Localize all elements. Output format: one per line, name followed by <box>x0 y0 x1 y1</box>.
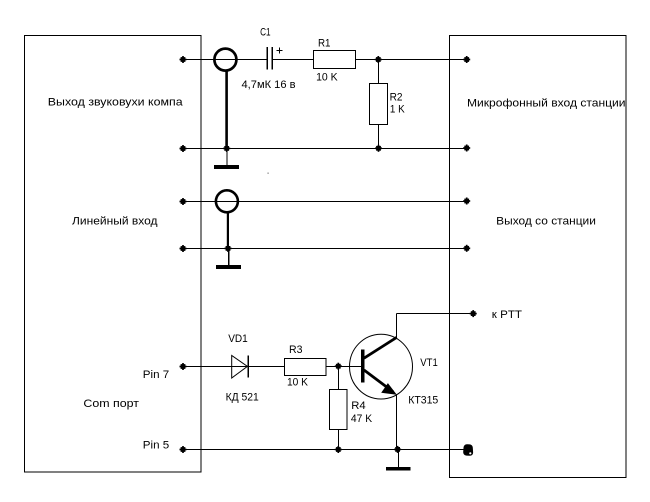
svg-text:Выход звуковухи компа: Выход звуковухи компа <box>48 96 184 108</box>
transistor VT1 emitter diagonal with arrow <box>364 370 393 392</box>
svg-text:R1: R1 <box>318 38 331 50</box>
node: right pin dot mic - <box>463 145 470 152</box>
transistor VT1 base bar <box>361 350 365 383</box>
diode VD1 cathode bar <box>247 355 249 377</box>
node: R4 bottom junction <box>335 446 342 453</box>
wire: ground rail 2 <box>183 248 467 250</box>
ground symbol 1 bar <box>214 165 239 169</box>
wire: J1 sleeve drop (thick) <box>225 71 228 149</box>
wire: R2 stem top <box>378 60 380 84</box>
svg-text:Pin 7: Pin 7 <box>143 369 169 381</box>
node: base junction <box>335 363 342 370</box>
svg-text:VT1: VT1 <box>420 357 438 369</box>
speck artifact <box>267 173 268 174</box>
wire: R4 stem bottom <box>338 430 340 450</box>
svg-text:КТ315: КТ315 <box>408 395 438 407</box>
resistor R3 <box>285 359 327 376</box>
node: emitter ground junction <box>394 446 401 453</box>
wire: Pin 5 ground rail <box>183 449 466 451</box>
svg-text:10 K: 10 K <box>287 377 309 389</box>
wire: collector to PTT <box>397 313 474 315</box>
left box (computer) <box>25 36 202 473</box>
transistor VT1 collector diagonal <box>364 337 397 358</box>
svg-text:R3: R3 <box>289 344 303 356</box>
node: right pin dot out - <box>463 245 470 252</box>
transistor VT1 body circle <box>350 334 413 399</box>
svg-text:R2: R2 <box>390 92 403 104</box>
capacitor C1 polarity plus <box>277 48 283 54</box>
node: left pin dot rail3 <box>180 198 187 205</box>
wire: ground rail 1 <box>183 148 467 150</box>
svg-text:1 K: 1 K <box>390 104 405 116</box>
node: right pin dot mic + <box>463 56 470 63</box>
svg-text:R4: R4 <box>351 400 365 412</box>
capacitor C1 right plate <box>271 47 273 69</box>
svg-text:КД 521: КД 521 <box>226 392 259 404</box>
resistor R2 <box>370 84 388 125</box>
svg-text:4,7мК 16 в: 4,7мК 16 в <box>242 79 296 91</box>
ground symbol 2 bar <box>216 265 241 269</box>
ground symbol 3 stem <box>398 450 400 468</box>
node: PTT pin dot <box>470 310 477 317</box>
node: ground 2 junction <box>225 245 232 252</box>
svg-text:C1: C1 <box>260 26 271 38</box>
wire: J2 sleeve drop (thick) <box>227 212 229 249</box>
wire: R4 stem top <box>338 367 340 390</box>
wire: R2 stem bottom <box>378 125 380 149</box>
ground symbol 1 stem <box>226 149 228 166</box>
resistor R1 <box>314 51 356 69</box>
ground symbol 3 bar <box>386 467 411 471</box>
node: left pin dot Pin7 <box>180 363 187 370</box>
wire: Pin 7 to base <box>183 366 361 368</box>
node: R1-R2 junction <box>375 56 382 63</box>
node: right pin dot out + <box>463 198 470 205</box>
wire: sound-card output to mic input (top rail) <box>183 59 267 61</box>
capacitor C1 left plate <box>266 47 268 69</box>
resistor R4 <box>330 390 348 430</box>
diode VD1 triangle <box>232 356 248 379</box>
node: left pin dot Pin5 <box>180 446 187 453</box>
wire: line input rail <box>183 201 467 203</box>
svg-text:Pin 5: Pin 5 <box>143 440 169 452</box>
right box (radio station) <box>450 36 627 478</box>
svg-text:Линейный вход: Линейный вход <box>72 215 158 227</box>
node: ground 1 junction <box>223 145 230 152</box>
node: left pin dot rail2 <box>180 145 187 152</box>
node: Pin5 blob terminal in right box <box>463 444 473 455</box>
node: left pin dot rail1 <box>180 56 187 63</box>
ground symbol 2 stem <box>228 249 230 266</box>
svg-text:Микрофонный вход станции: Микрофонный вход станции <box>467 98 626 110</box>
connector circle J2 <box>216 190 238 212</box>
node: left pin dot rail4 <box>180 245 187 252</box>
wire: collector vertical <box>396 314 398 338</box>
svg-text:47 K: 47 K <box>351 413 373 425</box>
svg-text:10 K: 10 K <box>316 71 338 83</box>
node: R2 bottom junction <box>375 145 382 152</box>
connector circle J1 <box>214 49 236 71</box>
svg-text:Com порт: Com порт <box>83 398 139 410</box>
svg-text:к PTT: к PTT <box>492 309 522 321</box>
wire: emitter vertical <box>396 395 398 450</box>
svg-text:VD1: VD1 <box>228 333 248 345</box>
svg-text:Выход со станции: Выход со станции <box>496 216 596 228</box>
